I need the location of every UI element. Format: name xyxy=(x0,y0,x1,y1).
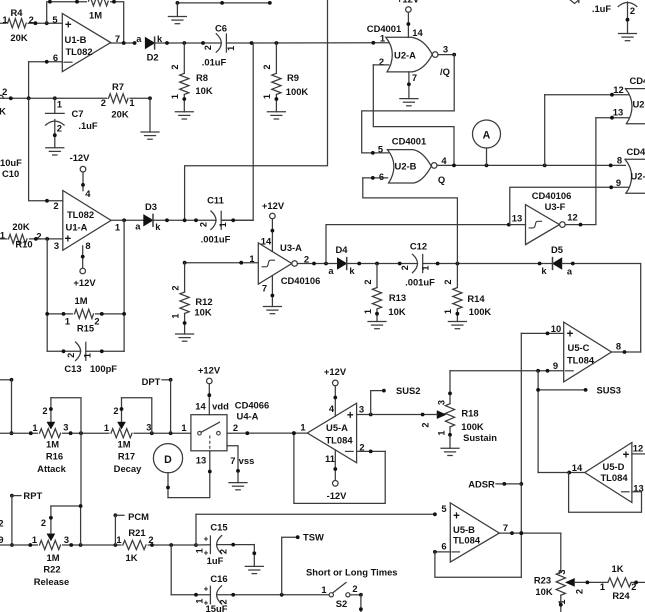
svg-text:2: 2 xyxy=(400,265,410,270)
wire: stub from left edge xyxy=(0,379,12,381)
svg-text:2: 2 xyxy=(57,124,62,134)
svg-text:6: 6 xyxy=(441,541,446,552)
svg-text:1: 1 xyxy=(129,98,134,108)
resistor R13 10K xyxy=(376,264,378,288)
svg-text:12: 12 xyxy=(613,84,623,95)
wire: ADSR vertical xyxy=(520,333,522,577)
svg-text:Q: Q xyxy=(438,174,445,185)
wire: U2-B output Q rail xyxy=(437,164,625,166)
svg-text:2: 2 xyxy=(219,549,229,554)
svg-text:2: 2 xyxy=(233,422,238,433)
op-amp U1-B TL082 xyxy=(62,14,110,72)
svg-text:2: 2 xyxy=(170,285,180,290)
svg-text:R18: R18 xyxy=(461,407,478,418)
svg-text:1M: 1M xyxy=(46,552,59,563)
wire: U5-D output xyxy=(538,472,585,474)
ground below R13 xyxy=(368,321,386,323)
svg-text:13: 13 xyxy=(613,107,623,118)
svg-text:C10: C10 xyxy=(2,168,19,179)
wire: lower bus to C16 xyxy=(170,545,172,595)
ground below .1uF cap xyxy=(619,33,637,35)
svg-text:8: 8 xyxy=(85,240,90,251)
svg-text:R14: R14 xyxy=(467,293,485,304)
svg-text:R9: R9 xyxy=(287,72,299,83)
wire: U1-A output rail xyxy=(111,219,216,221)
svg-text:20K: 20K xyxy=(12,221,29,232)
svg-text:1M: 1M xyxy=(117,439,130,450)
svg-text:11: 11 xyxy=(325,453,335,464)
capacitor C12 .001uF xyxy=(412,254,417,273)
svg-text:3: 3 xyxy=(443,44,448,55)
svg-text:6: 6 xyxy=(379,171,384,182)
wire: U1-B pin 6 xyxy=(29,61,63,63)
svg-text:C16: C16 xyxy=(210,573,227,584)
svg-text:TL082: TL082 xyxy=(67,209,94,220)
wire: release rail xyxy=(0,544,196,546)
svg-text:vdd: vdd xyxy=(212,400,229,411)
wire: U2-A pin 2 xyxy=(373,64,389,66)
svg-text:U1-A: U1-A xyxy=(66,221,88,232)
svg-text:D: D xyxy=(164,454,172,466)
svg-text:2: 2 xyxy=(94,317,99,327)
svg-text:+12V: +12V xyxy=(324,366,347,377)
wire: R7 to ground xyxy=(149,98,151,132)
svg-text:13: 13 xyxy=(196,455,206,466)
ground below R18 xyxy=(441,447,459,449)
svg-text:1: 1 xyxy=(363,309,373,314)
svg-text:+: + xyxy=(64,233,71,245)
svg-text:Release: Release xyxy=(34,576,69,587)
svg-text:1: 1 xyxy=(226,46,236,51)
svg-text:3: 3 xyxy=(63,423,68,433)
resistor R21 1K xyxy=(122,539,148,551)
wire: U3-A output xyxy=(297,263,337,265)
svg-text:1: 1 xyxy=(194,599,204,604)
wire: U2-A pin 7 ground xyxy=(408,72,410,99)
svg-text:100K: 100K xyxy=(286,86,309,97)
wire: SUS2 stub xyxy=(371,391,384,415)
wire: C6 to U2-A pin 1 xyxy=(226,42,388,44)
svg-text:R22: R22 xyxy=(43,563,60,574)
svg-text:2: 2 xyxy=(630,6,635,16)
wire: output to R23 xyxy=(560,533,562,572)
svg-text:2: 2 xyxy=(363,279,373,284)
svg-text:a: a xyxy=(328,266,334,276)
wire: U1-B output xyxy=(111,42,135,44)
svg-text:2: 2 xyxy=(148,535,153,545)
svg-text:CD40106: CD40106 xyxy=(532,190,572,201)
svg-text:Sustain: Sustain xyxy=(463,432,497,443)
svg-text:1M: 1M xyxy=(89,10,102,21)
svg-text:-12V: -12V xyxy=(70,152,91,163)
capacitor C6 .01uF xyxy=(216,34,221,53)
svg-text:5: 5 xyxy=(378,144,383,155)
svg-text:1K: 1K xyxy=(126,552,138,563)
svg-text:+12V: +12V xyxy=(198,364,221,375)
wire: S2 to bottom xyxy=(350,594,361,596)
svg-text:1M: 1M xyxy=(46,439,59,450)
svg-text:4: 4 xyxy=(85,188,91,199)
op-amp U5-B TL084 xyxy=(450,503,499,562)
svg-text:12: 12 xyxy=(633,443,643,454)
potentiometer R18 100K Sustain xyxy=(445,404,454,427)
svg-text:5: 5 xyxy=(441,503,446,514)
svg-text:13: 13 xyxy=(512,213,522,224)
svg-text:+: + xyxy=(65,20,72,32)
svg-text:+: + xyxy=(347,410,354,422)
wire: U3-A input xyxy=(185,262,259,264)
wire: U2-D pin 9 to U3-F input xyxy=(510,187,629,224)
svg-text:SUS2: SUS2 xyxy=(396,385,421,396)
svg-text:1: 1 xyxy=(437,430,447,435)
ground top middle xyxy=(168,16,186,18)
op-amp U5-D TL084 (points left) xyxy=(585,443,632,503)
wire: /Q to U2-B pin 5 xyxy=(362,55,455,153)
svg-text:D2: D2 xyxy=(147,52,159,63)
svg-text:+12V: +12V xyxy=(397,0,420,5)
svg-text:2: 2 xyxy=(2,87,7,97)
svg-text:S2: S2 xyxy=(336,598,347,609)
wire: U1-A pin 2 xyxy=(29,98,63,201)
svg-text:a: a xyxy=(567,266,573,276)
wire: C13 rail xyxy=(47,350,80,352)
wire: U1-A pin 3 input rail xyxy=(0,238,63,240)
resistor R10 20K xyxy=(8,233,30,245)
wire: C11 right xyxy=(221,219,253,221)
svg-text:+: + xyxy=(204,534,209,543)
svg-text:.001uF: .001uF xyxy=(201,234,231,245)
capacitor C15 1uF xyxy=(196,544,210,546)
svg-text:8: 8 xyxy=(617,155,622,166)
wire: U5-D feedback to pin 13 xyxy=(569,473,642,513)
svg-text:10K: 10K xyxy=(535,586,552,597)
svg-text:100pF: 100pF xyxy=(90,363,117,374)
wire: D4 to C12 xyxy=(347,263,418,265)
ground for U4-A vss xyxy=(229,482,247,484)
svg-text:Decay: Decay xyxy=(114,463,142,474)
wire: U5-C pin 9 rail from R18 xyxy=(450,370,564,372)
wire: PCM stub xyxy=(114,513,118,517)
svg-text:9: 9 xyxy=(616,177,621,188)
wire: U5-D pin 12 stub xyxy=(632,453,645,455)
svg-text:U2-A: U2-A xyxy=(394,50,416,61)
wire: TSW stub xyxy=(282,537,298,595)
svg-text:k: k xyxy=(155,222,161,232)
wire: R16 net down to R22 xyxy=(80,433,82,506)
ground below U2-A xyxy=(400,98,418,100)
svg-text:6: 6 xyxy=(53,52,58,63)
wire: top ground rail xyxy=(177,2,271,4)
ground below R8 xyxy=(175,111,193,113)
wire: U2-B pin 6 to R14 net xyxy=(363,177,388,179)
svg-text:2: 2 xyxy=(41,518,46,528)
wire: U5-A pin 11 to -12V xyxy=(334,450,336,481)
svg-text:1: 1 xyxy=(170,313,180,318)
svg-text:SUS3: SUS3 xyxy=(597,384,622,395)
wire: R15 rail xyxy=(47,313,124,315)
svg-text:1: 1 xyxy=(194,548,204,553)
wire: U5-C output pin 8 xyxy=(612,351,641,353)
svg-text:R7: R7 xyxy=(112,81,124,92)
svg-text:U4-A: U4-A xyxy=(237,410,259,421)
svg-text:R13: R13 xyxy=(389,292,406,303)
wire: U5-C pin 10 xyxy=(521,332,563,334)
svg-text:-12V: -12V xyxy=(327,490,348,501)
wire: C7/R7 rail xyxy=(0,97,150,99)
svg-text:3: 3 xyxy=(359,404,364,415)
svg-text:U5-A: U5-A xyxy=(326,422,348,433)
svg-text:R12: R12 xyxy=(195,296,212,307)
svg-text:vss: vss xyxy=(239,455,255,466)
svg-text:5: 5 xyxy=(52,14,57,25)
svg-text:2: 2 xyxy=(0,519,4,529)
resistor R5 1M (feedback, cut at top) xyxy=(87,0,110,5)
schmitt inverter U3-F CD40106 xyxy=(526,205,560,245)
svg-text:1: 1 xyxy=(65,317,70,327)
wire: C6 net down to C11 right plate xyxy=(221,43,253,220)
svg-text:10K: 10K xyxy=(195,85,212,96)
wire: U5-B pin 6 feedback xyxy=(435,551,450,553)
svg-text:R10: R10 xyxy=(15,238,32,249)
svg-text:1: 1 xyxy=(104,423,109,433)
svg-text:10K: 10K xyxy=(388,306,405,317)
svg-text:RPT: RPT xyxy=(23,490,42,501)
svg-text:D3: D3 xyxy=(145,201,157,212)
resistor R24 1K xyxy=(608,578,631,587)
wire: U2-C pin 12 net xyxy=(596,117,629,119)
svg-text:3: 3 xyxy=(64,535,69,545)
svg-text:14: 14 xyxy=(572,462,583,473)
svg-text:D5: D5 xyxy=(551,244,563,255)
svg-text:a: a xyxy=(135,222,141,232)
ground right of C15 xyxy=(245,565,263,567)
svg-text:2: 2 xyxy=(170,64,180,69)
potentiometer R22 1M Release xyxy=(38,539,62,551)
svg-text:1: 1 xyxy=(32,535,37,545)
potentiometer R16 1M Attack xyxy=(38,428,62,440)
svg-text:4: 4 xyxy=(329,403,335,414)
+12V supply under U1-A xyxy=(80,268,86,274)
wire: R18 pin 3 to U5-C pin 9 xyxy=(449,371,451,404)
wire: SUS3 stub xyxy=(537,371,539,472)
svg-text:+: + xyxy=(204,585,209,594)
wire: U1-A pin 8 to +12V xyxy=(82,246,84,268)
switch S2 xyxy=(329,593,333,597)
svg-text:R4: R4 xyxy=(11,7,24,18)
svg-text:+: + xyxy=(623,450,630,462)
svg-text:C6: C6 xyxy=(215,23,227,34)
svg-text:7: 7 xyxy=(115,33,120,44)
svg-text:2: 2 xyxy=(66,353,76,358)
svg-text:9: 9 xyxy=(553,360,558,371)
svg-text:2: 2 xyxy=(443,279,453,284)
svg-text:CD4001: CD4001 xyxy=(627,146,645,157)
svg-text:2: 2 xyxy=(199,222,209,227)
svg-text:+12V: +12V xyxy=(262,200,285,211)
svg-text:2: 2 xyxy=(304,254,309,265)
svg-text:7: 7 xyxy=(262,283,267,294)
wire: U5-B output xyxy=(499,532,561,534)
svg-text:TL084: TL084 xyxy=(325,435,353,446)
svg-text:.1uF: .1uF xyxy=(592,3,612,14)
svg-text:+12V: +12V xyxy=(73,277,96,288)
svg-text:R15: R15 xyxy=(77,322,94,333)
wire: Q to U2-A pin 2 xyxy=(373,65,454,165)
svg-text:ADSR: ADSR xyxy=(468,478,495,489)
svg-text:a: a xyxy=(136,34,142,44)
svg-text:1: 1 xyxy=(57,100,62,110)
svg-text:CD4001: CD4001 xyxy=(630,75,645,86)
wire: D2 cathode rail to C6 xyxy=(155,42,222,44)
wire: U1-A feedback left vertical xyxy=(46,239,48,351)
partial component at top edge xyxy=(570,0,579,4)
svg-text:C12: C12 xyxy=(410,241,427,252)
svg-text:1: 1 xyxy=(181,422,186,433)
svg-text:10: 10 xyxy=(551,323,561,334)
ground below R9 xyxy=(267,111,285,113)
svg-text:100K: 100K xyxy=(461,421,484,432)
resistor R7 20K xyxy=(108,93,130,104)
svg-text:U2-D: U2-D xyxy=(631,171,645,182)
resistor R4 20K xyxy=(7,18,28,29)
svg-text:1K: 1K xyxy=(612,563,624,574)
svg-text:1: 1 xyxy=(218,222,228,227)
svg-text:1: 1 xyxy=(262,94,272,99)
svg-text:7: 7 xyxy=(412,72,417,83)
svg-text:2: 2 xyxy=(53,200,58,211)
wire: R24 to right edge xyxy=(631,581,645,583)
svg-text:7: 7 xyxy=(230,455,235,466)
wire: switch pin 7 vss to ground xyxy=(227,446,238,483)
-12V supply under U5-A xyxy=(333,481,339,487)
svg-text:1: 1 xyxy=(421,265,431,270)
svg-text:CD4066: CD4066 xyxy=(235,399,269,410)
ground below R14 xyxy=(448,321,466,323)
capacitor C16 15uF xyxy=(209,586,211,604)
wire: C12 to D5 xyxy=(423,263,553,265)
potentiometer R17 1M Decay xyxy=(110,428,134,440)
wire: D5 anode to U5-C pin 8 net xyxy=(562,264,641,353)
svg-text:1: 1 xyxy=(115,221,120,232)
svg-text:12: 12 xyxy=(567,212,577,223)
wire: D circle to switch pin 13 xyxy=(167,473,169,498)
svg-text:Attack: Attack xyxy=(37,463,66,474)
svg-text:1: 1 xyxy=(380,32,385,43)
svg-text:Short or Long Times: Short or Long Times xyxy=(306,566,398,577)
svg-text:CD40106: CD40106 xyxy=(281,275,321,286)
svg-text:U2-C: U2-C xyxy=(633,99,645,110)
svg-text:TL084: TL084 xyxy=(567,355,595,366)
analog switch U4-A CD4066 xyxy=(191,415,227,451)
svg-text:1: 1 xyxy=(116,535,121,545)
NOR gate U2-B CD4001 xyxy=(387,150,431,183)
svg-text:U5-D: U5-D xyxy=(603,461,625,472)
svg-text:2: 2 xyxy=(203,45,213,50)
node D annotation circle xyxy=(153,444,182,473)
svg-text:CD4001: CD4001 xyxy=(392,136,426,147)
wire: U3-F output to U2-C pin 13 xyxy=(565,118,596,225)
svg-text:1: 1 xyxy=(321,585,326,595)
svg-text:D4: D4 xyxy=(336,244,349,255)
resistor R8 10K xyxy=(183,43,185,73)
svg-text:1: 1 xyxy=(32,423,37,433)
svg-text:2: 2 xyxy=(101,98,106,108)
svg-text:1: 1 xyxy=(600,582,605,592)
svg-text:2: 2 xyxy=(113,406,118,416)
svg-text:3: 3 xyxy=(146,422,151,432)
svg-text:/Q: /Q xyxy=(440,66,450,77)
svg-text:R8: R8 xyxy=(196,72,208,83)
svg-text:2: 2 xyxy=(359,441,364,452)
svg-text:3: 3 xyxy=(437,400,447,405)
svg-text:A: A xyxy=(483,130,491,142)
node A annotation circle xyxy=(473,120,501,148)
capacitor C13 100pF xyxy=(76,342,81,361)
wire: U3-F input rail xyxy=(326,225,526,264)
svg-text:C13: C13 xyxy=(64,363,81,374)
NOR gate U2-A CD4001 xyxy=(386,37,433,72)
svg-text:DPT: DPT xyxy=(142,376,161,387)
svg-text:+: + xyxy=(453,511,460,523)
wire: switch pin 2 to U5-A pin 1 xyxy=(227,432,307,434)
svg-text:.01uF: .01uF xyxy=(202,57,227,68)
schmitt inverter U3-A CD40106 xyxy=(258,243,292,284)
svg-text:C7: C7 xyxy=(72,108,84,119)
svg-text:K: K xyxy=(0,106,6,117)
svg-text:4: 4 xyxy=(441,155,447,166)
svg-text:8: 8 xyxy=(616,341,621,352)
svg-text:2: 2 xyxy=(36,231,41,241)
svg-text:C11: C11 xyxy=(207,195,224,206)
wire: U5-A output to R18 wiper xyxy=(357,414,437,416)
wire: C15 net to TSW rail xyxy=(195,514,197,545)
svg-text:TL084: TL084 xyxy=(600,472,628,483)
svg-text:15uF: 15uF xyxy=(206,603,228,612)
svg-text:1: 1 xyxy=(443,309,453,314)
NOR gate U2-D CD4001 (cut at edge) xyxy=(625,159,645,193)
svg-text:20K: 20K xyxy=(111,109,128,120)
NOR gate U2-C CD4001 (cut at edge) xyxy=(625,89,645,124)
svg-text:R24: R24 xyxy=(612,590,630,601)
wire: U1-B feedback top xyxy=(47,2,124,43)
resistor R12 10K xyxy=(184,263,186,292)
wire: C15 right to ground xyxy=(253,545,255,567)
wire: U3-A pin 7 to ground xyxy=(271,276,273,307)
svg-text:2: 2 xyxy=(42,406,47,416)
svg-text:2: 2 xyxy=(420,422,430,427)
svg-text:TL082: TL082 xyxy=(65,46,92,57)
wire: U5-A pin 2 feedback xyxy=(357,450,386,452)
svg-text:2: 2 xyxy=(29,15,34,25)
capacitor C7 .1uF xyxy=(54,98,56,113)
svg-text:7: 7 xyxy=(503,522,508,533)
wire: RPT stub xyxy=(10,494,14,498)
svg-text:1: 1 xyxy=(170,94,180,99)
svg-text:TL084: TL084 xyxy=(453,535,481,546)
svg-text:1: 1 xyxy=(2,15,7,25)
wire: input to U1-B pin 5 xyxy=(0,22,62,24)
svg-text:U1-B: U1-B xyxy=(65,34,87,45)
svg-text:+: + xyxy=(567,328,574,340)
ground below C7 xyxy=(46,147,64,149)
svg-text:U3-F: U3-F xyxy=(545,201,566,212)
svg-text:PCM: PCM xyxy=(128,511,149,522)
svg-text:1uF: 1uF xyxy=(207,555,224,566)
svg-text:2: 2 xyxy=(352,584,357,594)
wire: U2-A output /Q xyxy=(438,54,454,56)
svg-text:R17: R17 xyxy=(118,450,135,461)
wire: long vertical from top to C11/D3 node xyxy=(185,0,328,220)
